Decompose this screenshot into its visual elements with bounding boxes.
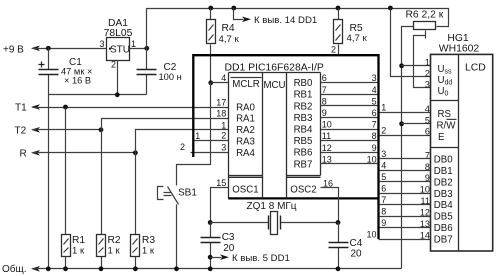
svg-text:8: 8 — [322, 96, 327, 106]
svg-text:10: 10 — [366, 229, 376, 239]
svg-text:5: 5 — [372, 96, 377, 106]
capacitor C2 — [146, 49, 148, 95]
svg-text:RB1: RB1 — [294, 90, 313, 101]
svg-text:9: 9 — [425, 173, 430, 183]
svg-text:6: 6 — [372, 108, 377, 118]
wire MCLR to DD1 — [211, 82, 229, 84]
svg-text:6: 6 — [425, 127, 430, 137]
svg-text:RA3: RA3 — [236, 136, 255, 147]
svg-text:LCD: LCD — [465, 62, 486, 73]
wire T1 to RA0 — [33, 107, 229, 109]
svg-text:OSC1: OSC1 — [232, 185, 258, 196]
svg-text:R4: R4 — [222, 23, 235, 34]
capacitor C1 — [48, 49, 50, 95]
svg-text:RB7: RB7 — [294, 159, 313, 170]
svg-text:HG1: HG1 — [447, 33, 469, 44]
svg-text:15: 15 — [216, 178, 226, 188]
wire OSC2 to C4 — [321, 188, 339, 223]
svg-text:MCU: MCU — [263, 80, 285, 91]
wire C1- link to C2- — [49, 94, 147, 96]
wire OSC1 to crystal — [211, 188, 229, 223]
svg-text:К выв. 14 DD1: К выв. 14 DD1 — [254, 15, 317, 26]
node T2 input arrow — [31, 127, 40, 133]
svg-text:RB4: RB4 — [294, 125, 313, 136]
node rail junction Udd — [388, 6, 393, 11]
svg-text:RB6: RB6 — [294, 148, 313, 159]
IC DD1 inner fields — [229, 73, 321, 199]
svg-text:2: 2 — [111, 60, 116, 70]
pushbutton SB1 — [168, 187, 179, 269]
wire DB6 exit net9 — [380, 227, 431, 229]
svg-text:3: 3 — [99, 39, 104, 49]
wire DB5 exit net8 — [380, 216, 431, 218]
svg-text:16: 16 — [323, 178, 333, 188]
node MCLR junction — [208, 80, 213, 85]
node rail junction K vyv 14 — [231, 6, 236, 11]
IC DD1 PIC16F628A outer box — [193, 55, 379, 239]
svg-text:3: 3 — [221, 142, 226, 152]
wire DA1 pin2 down — [117, 61, 119, 95]
svg-text:OSC2: OSC2 — [290, 185, 316, 196]
wire R riser to RA2 — [136, 130, 229, 153]
svg-text:2: 2 — [221, 131, 226, 141]
svg-text:4,7 к: 4,7 к — [347, 33, 368, 44]
wire R/W to ground line — [399, 121, 404, 126]
svg-text:100 н: 100 н — [159, 72, 182, 82]
svg-text:11: 11 — [322, 131, 331, 141]
svg-text:3: 3 — [372, 73, 377, 83]
resistor R5 4.7k — [338, 9, 340, 55]
svg-text:10: 10 — [367, 154, 377, 164]
svg-text:× 16 В: × 16 В — [64, 76, 91, 86]
capacitor C4 — [338, 223, 340, 269]
svg-text:13: 13 — [420, 219, 430, 229]
svg-text:C3: C3 — [222, 232, 235, 243]
svg-text:DB7: DB7 — [434, 235, 453, 246]
svg-text:18: 18 — [216, 109, 226, 119]
svg-text:3: 3 — [381, 149, 386, 159]
svg-text:10: 10 — [420, 185, 430, 195]
wire R6 tap to U0 — [414, 31, 431, 88]
svg-text:4,7 к: 4,7 к — [219, 34, 240, 45]
svg-text:+9 В: +9 В — [3, 44, 24, 55]
svg-text:STU: STU — [110, 44, 130, 55]
svg-text:1: 1 — [221, 120, 226, 130]
svg-text:1: 1 — [381, 103, 386, 113]
svg-text:4: 4 — [381, 161, 386, 171]
svg-text:7: 7 — [372, 120, 377, 130]
wire R6 left to ground line — [402, 27, 414, 269]
svg-text:R6 2,2 к: R6 2,2 к — [406, 10, 444, 21]
svg-text:R/W: R/W — [437, 121, 457, 132]
wire DB4 exit net7 — [380, 204, 431, 206]
svg-text:2: 2 — [180, 142, 185, 152]
svg-text:DB6: DB6 — [434, 223, 453, 234]
svg-text:DB1: DB1 — [434, 166, 453, 177]
wire T2 — [33, 129, 102, 131]
wire E exit net2 — [380, 135, 431, 137]
svg-text:10: 10 — [322, 120, 332, 130]
svg-text:RA2: RA2 — [236, 125, 255, 136]
wire RB5 pin11 — [321, 140, 378, 142]
svg-text:R2: R2 — [108, 235, 121, 246]
svg-text:R3: R3 — [142, 235, 155, 246]
svg-text:4: 4 — [425, 104, 430, 114]
svg-text:ZQ1 8 МГц: ZQ1 8 МГц — [247, 201, 297, 212]
svg-text:1: 1 — [195, 131, 200, 141]
node +9V input arrow — [31, 46, 40, 52]
svg-text:RB2: RB2 — [294, 101, 313, 112]
svg-text:12: 12 — [420, 208, 430, 218]
svg-text:C2: C2 — [164, 62, 177, 73]
wire Udd from rail — [391, 9, 431, 77]
svg-text:C4: C4 — [350, 238, 363, 249]
svg-text:8: 8 — [425, 162, 430, 172]
svg-text:7: 7 — [322, 85, 327, 95]
capacitor C3 — [210, 223, 212, 269]
wire R — [33, 152, 136, 154]
svg-text:WH1602: WH1602 — [439, 44, 480, 55]
svg-text:1: 1 — [425, 57, 430, 67]
node ground junctions — [46, 266, 51, 271]
svg-text:6: 6 — [322, 73, 327, 83]
wire RA4 stub net2 — [191, 152, 229, 154]
svg-text:RA1: RA1 — [236, 114, 255, 125]
svg-text:6: 6 — [381, 184, 386, 194]
svg-text:7: 7 — [381, 195, 386, 205]
svg-text:R: R — [20, 148, 27, 159]
svg-text:DB2: DB2 — [434, 177, 453, 188]
svg-text:2: 2 — [425, 68, 430, 78]
svg-text:DB0: DB0 — [434, 154, 453, 165]
svg-text:20: 20 — [351, 249, 363, 260]
wire C1 to ground rail — [48, 95, 50, 269]
svg-text:E: E — [438, 132, 445, 143]
svg-text:RB0: RB0 — [294, 78, 313, 89]
svg-text:T1: T1 — [15, 103, 27, 114]
svg-text:RB5: RB5 — [294, 136, 313, 147]
wire RB1 pin7 — [321, 94, 378, 96]
wire RB7 pin13 — [321, 163, 378, 165]
svg-text:9: 9 — [322, 108, 327, 118]
node rail junction R5 — [336, 6, 341, 11]
resistor R3 1k — [135, 153, 137, 269]
svg-text:Общ.: Общ. — [2, 263, 27, 275]
wire DA1 out to +5V node — [130, 48, 147, 50]
wire DB0 exit net3 — [380, 158, 431, 160]
svg-text:1 к: 1 к — [142, 246, 155, 257]
svg-text:17: 17 — [216, 98, 226, 108]
wire DB3 exit net6 — [380, 193, 431, 195]
wire RB6 pin12 — [321, 152, 378, 154]
svg-text:9: 9 — [381, 218, 386, 228]
wire RA3 stub net1 — [195, 140, 229, 142]
wire +5V top rail — [147, 9, 449, 49]
node K vyv 5 junction — [208, 255, 213, 260]
node K vyv 14 DD1 label — [234, 9, 244, 20]
svg-text:13: 13 — [322, 154, 332, 164]
svg-text:2: 2 — [331, 45, 336, 55]
wire T2 riser to RA1 — [102, 119, 229, 130]
svg-text:3: 3 — [425, 79, 430, 89]
svg-text:2: 2 — [381, 125, 386, 135]
svg-text:RA0: RA0 — [236, 102, 255, 113]
svg-text:12: 12 — [322, 143, 332, 153]
pin MCLR label — [231, 77, 262, 79]
node rail junction R4 — [208, 6, 213, 11]
wire RB0 pin6 — [321, 82, 378, 84]
node T1 input arrow — [31, 104, 40, 110]
svg-text:14: 14 — [420, 231, 430, 241]
wire Uss — [399, 63, 404, 68]
svg-text:1 к: 1 к — [72, 246, 85, 257]
node junction +9V/C1 — [46, 46, 51, 51]
wire DB2 exit net5 — [380, 181, 431, 183]
svg-text:MCLR: MCLR — [232, 79, 259, 90]
resistor R1 1k — [65, 108, 67, 269]
resistor R2 1k — [101, 130, 103, 269]
wire +9V to DA1 pin3 — [33, 48, 107, 50]
wire RB3 pin9 — [321, 117, 378, 119]
node R input arrow — [31, 150, 40, 156]
svg-text:9: 9 — [372, 143, 377, 153]
svg-text:T2: T2 — [15, 125, 27, 136]
svg-text:7: 7 — [425, 150, 430, 160]
svg-text:8: 8 — [372, 131, 377, 141]
svg-text:4: 4 — [372, 85, 377, 95]
wire DB1 exit net4 — [380, 170, 431, 172]
wire RB2 pin8 — [321, 105, 378, 107]
wire RB4 pin10 — [321, 129, 378, 131]
svg-text:11: 11 — [421, 196, 430, 206]
svg-text:DB5: DB5 — [434, 212, 453, 223]
svg-text:1: 1 — [131, 39, 136, 49]
svg-text:RA4: RA4 — [236, 148, 255, 159]
svg-text:1 к: 1 к — [108, 246, 121, 257]
svg-text:8: 8 — [381, 207, 386, 217]
wire DB7 exit net10 — [379, 239, 431, 241]
svg-text:R1: R1 — [72, 235, 85, 246]
wire MCLR to SB1 — [177, 83, 211, 186]
resistor R4 4.7k — [210, 9, 212, 83]
ground rail — [31, 266, 40, 272]
svg-text:5: 5 — [381, 172, 386, 182]
svg-text:5: 5 — [425, 115, 430, 125]
svg-text:RB3: RB3 — [294, 113, 313, 124]
svg-text:DB3: DB3 — [434, 189, 453, 200]
wire RS exit net1 — [380, 112, 431, 114]
svg-text:4: 4 — [221, 73, 226, 83]
svg-text:К выв. 5 DD1: К выв. 5 DD1 — [232, 253, 290, 264]
svg-text:DB4: DB4 — [434, 200, 453, 211]
svg-text:RS: RS — [438, 109, 452, 120]
svg-text:SB1: SB1 — [178, 188, 197, 199]
